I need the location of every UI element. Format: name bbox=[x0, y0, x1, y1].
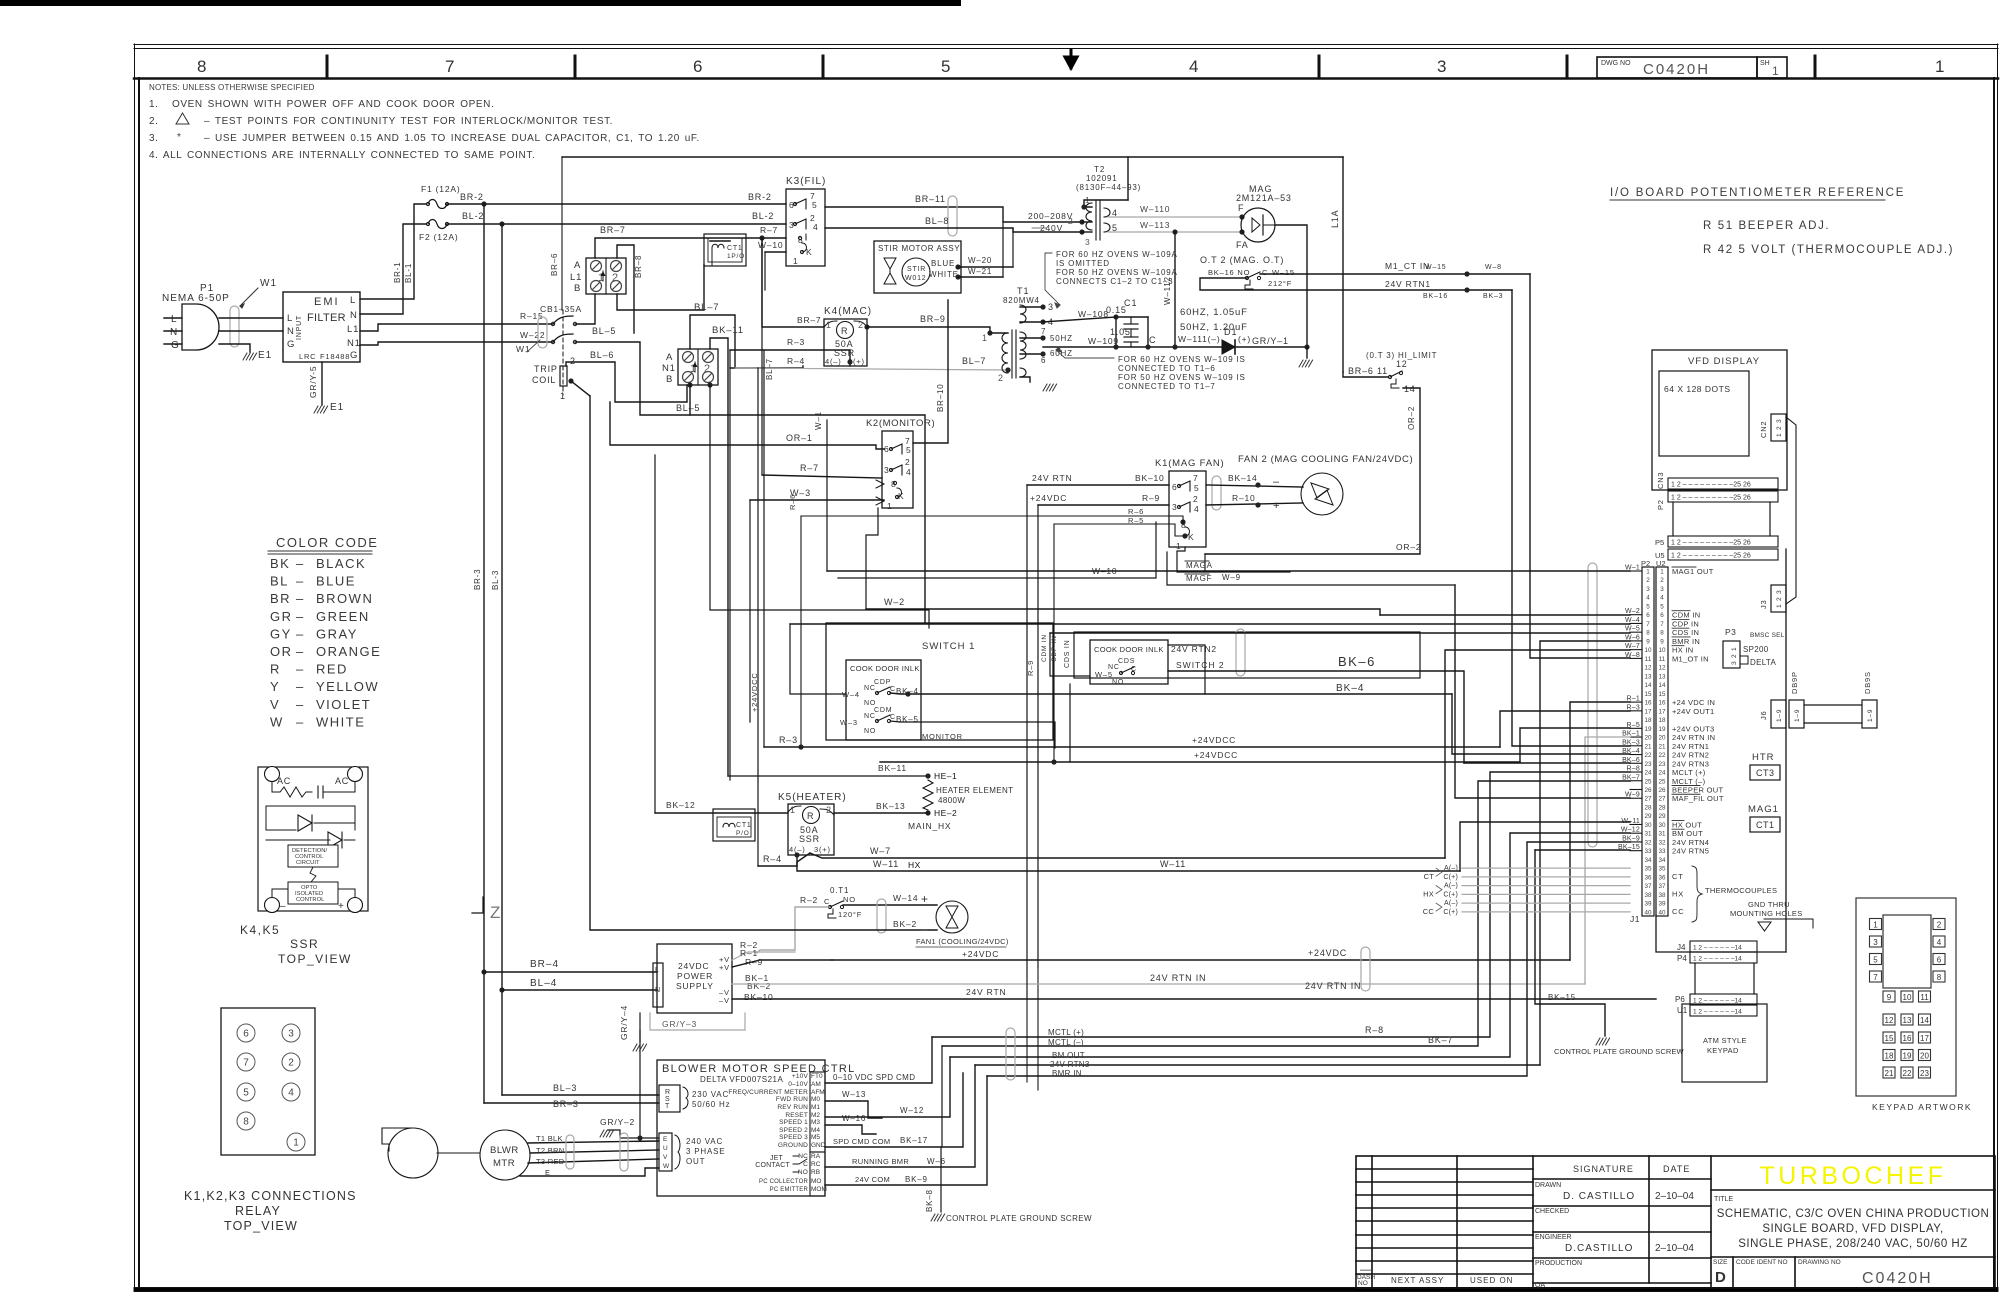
svg-text:P3: P3 bbox=[1725, 627, 1736, 637]
svg-text:+24VDC: +24VDC bbox=[962, 949, 999, 959]
svg-text:CDP: CDP bbox=[874, 679, 891, 686]
wire BR-2 bus bbox=[447, 192, 786, 207]
svg-text:PC EMITTER: PC EMITTER bbox=[770, 1187, 809, 1193]
svg-text:18: 18 bbox=[1658, 717, 1666, 724]
svg-text:T1 BLK: T1 BLK bbox=[536, 1134, 563, 1143]
connector P3 BMSC SEL bbox=[1723, 627, 1785, 668]
svg-text:0–10 VDC SPD CMD: 0–10 VDC SPD CMD bbox=[833, 1073, 915, 1082]
svg-text:R–6: R–6 bbox=[1128, 507, 1144, 516]
svg-text:HX: HX bbox=[1672, 889, 1684, 898]
svg-text:R 51 BEEPER ADJ.: R 51 BEEPER ADJ. bbox=[1703, 220, 1830, 232]
svg-text:0–10V: 0–10V bbox=[788, 1081, 808, 1088]
svg-text:COOK DOOR INLK: COOK DOOR INLK bbox=[850, 664, 920, 673]
svg-text:BL-3: BL-3 bbox=[491, 570, 500, 590]
svg-text:W–11: W–11 bbox=[1160, 859, 1186, 869]
svg-text:CONTROL PLATE GROUND SCREW: CONTROL PLATE GROUND SCREW bbox=[946, 1214, 1092, 1223]
svg-text:16: 16 bbox=[1658, 700, 1666, 707]
wire W-4 to pin 7 bbox=[790, 623, 1630, 625]
svg-text:W1: W1 bbox=[516, 344, 530, 354]
wire M1_CT IN bbox=[1260, 261, 1530, 277]
contactor K3 aux (A L1 B block 1) bbox=[570, 258, 626, 294]
svg-text:BL–6: BL–6 bbox=[590, 350, 614, 360]
wire BL-7 gray to T1 pin2 bbox=[735, 356, 1011, 383]
svg-text:10: 10 bbox=[1658, 647, 1666, 654]
svg-text:HEATER ELEMENT: HEATER ELEMENT bbox=[936, 786, 1013, 795]
svg-text:1 2 – – – – – – – – –25 26: 1 2 – – – – – – – – –25 26 bbox=[1671, 495, 1751, 502]
MAGA / MAGF wires bbox=[1167, 547, 1455, 585]
svg-text:BR–3: BR–3 bbox=[553, 1099, 579, 1109]
svg-text:YELLOW: YELLOW bbox=[316, 679, 379, 694]
svg-text:8: 8 bbox=[1660, 630, 1664, 637]
svg-text:W–3: W–3 bbox=[840, 718, 858, 727]
wire W-2 to pin 6 bbox=[1380, 614, 1630, 616]
svg-text:T3 RED: T3 RED bbox=[536, 1157, 565, 1166]
svg-text:13: 13 bbox=[1644, 673, 1652, 680]
svg-text:5: 5 bbox=[906, 445, 912, 455]
wire +24VDC lower label bbox=[1308, 948, 1347, 958]
svg-text:R–9: R–9 bbox=[1142, 493, 1160, 503]
svg-text:MCLT (–): MCLT (–) bbox=[1672, 777, 1706, 786]
svg-text:W–8: W–8 bbox=[1485, 264, 1502, 271]
K1 input wires 24V RTN / +24VDC bbox=[788, 473, 1185, 762]
svg-text:17: 17 bbox=[1658, 708, 1666, 715]
svg-text:Z: Z bbox=[490, 903, 500, 922]
svg-text:STIR MOTOR ASSY: STIR MOTOR ASSY bbox=[878, 244, 960, 253]
wire BL-2 bus bbox=[447, 211, 786, 227]
svg-text:1–9: 1–9 bbox=[1867, 709, 1874, 722]
svg-text:N: N bbox=[350, 310, 358, 321]
svg-text:CONNECTED TO T1–6: CONNECTED TO T1–6 bbox=[1118, 364, 1216, 373]
svg-text:33: 33 bbox=[1658, 848, 1666, 855]
svg-text:F18488: F18488 bbox=[320, 352, 350, 361]
svg-text:BL–7: BL–7 bbox=[765, 358, 774, 380]
ground E1 (plug) bbox=[243, 350, 272, 361]
svg-text:REV RUN: REV RUN bbox=[777, 1104, 808, 1111]
ferrite on CB1 input bbox=[516, 317, 547, 354]
relay K1(MAG FAN) bbox=[1155, 458, 1225, 551]
blower scroll icon bbox=[382, 1128, 438, 1178]
svg-text:9: 9 bbox=[1646, 638, 1650, 645]
svg-text:1: 1 bbox=[1935, 57, 1944, 76]
svg-text:NO: NO bbox=[864, 700, 876, 707]
svg-text:24V RTN3: 24V RTN3 bbox=[1672, 759, 1709, 768]
svg-text:3 PHASE: 3 PHASE bbox=[686, 1147, 725, 1156]
svg-text:+24VDCC: +24VDCC bbox=[1194, 750, 1238, 760]
svg-text:16: 16 bbox=[1903, 1034, 1912, 1043]
svg-text:S: S bbox=[665, 1096, 670, 1103]
svg-text:BLUE: BLUE bbox=[931, 259, 955, 268]
svg-text:OR–2: OR–2 bbox=[1396, 542, 1421, 552]
svg-text:TOP_VIEW: TOP_VIEW bbox=[278, 952, 352, 966]
svg-text:BL-2: BL-2 bbox=[462, 211, 484, 221]
connector U5 row bbox=[1655, 549, 1778, 560]
svg-text:14: 14 bbox=[1658, 682, 1666, 689]
svg-text:11: 11 bbox=[1659, 656, 1666, 663]
thermocouple brace + labels bbox=[1672, 866, 1777, 922]
svg-text:SSR: SSR bbox=[799, 834, 820, 844]
svg-text:200–208V: 200–208V bbox=[1028, 211, 1073, 221]
svg-text:–: – bbox=[296, 609, 305, 624]
svg-text:–: – bbox=[296, 679, 305, 694]
switch2 wires BK-6 bbox=[1050, 633, 1464, 763]
svg-text:BMR IN: BMR IN bbox=[1052, 1069, 1082, 1078]
svg-text:O.T 2 (MAG. O.T): O.T 2 (MAG. O.T) bbox=[1200, 255, 1284, 265]
svg-text:A(–): A(–) bbox=[1444, 865, 1458, 872]
svg-text:W–12: W–12 bbox=[900, 1106, 924, 1115]
wire L to fuse F1 bbox=[360, 204, 426, 299]
svg-text:R–3: R–3 bbox=[779, 735, 798, 745]
svg-text:1: 1 bbox=[560, 391, 566, 401]
svg-text:2: 2 bbox=[1068, 216, 1073, 226]
svg-text:OR–2: OR–2 bbox=[1407, 406, 1416, 430]
wire BR-11 bbox=[825, 194, 1085, 236]
svg-text:BK–12: BK–12 bbox=[666, 800, 696, 810]
svg-text:SINGLE PHASE, 208/240 VAC, 50/: SINGLE PHASE, 208/240 VAC, 50/60 HZ bbox=[1738, 1238, 1968, 1250]
svg-text:GRAY: GRAY bbox=[316, 626, 358, 641]
wire W-2 bbox=[866, 508, 1380, 615]
svg-text:7: 7 bbox=[1041, 327, 1046, 336]
heater element 4800W bbox=[908, 780, 1013, 831]
svg-text:31: 31 bbox=[1658, 831, 1666, 838]
svg-text:N: N bbox=[170, 327, 178, 338]
svg-text:FOR 50 HZ OVENS W–109A: FOR 50 HZ OVENS W–109A bbox=[1056, 268, 1178, 277]
zone ticks bbox=[327, 56, 1815, 78]
svg-text:–: – bbox=[1273, 476, 1280, 488]
svg-text:DWG NO: DWG NO bbox=[1601, 60, 1631, 67]
connector J4 bbox=[1677, 941, 1757, 952]
svg-text:W–15: W–15 bbox=[1272, 268, 1295, 277]
connector J6 + DB9P bbox=[1759, 671, 1804, 728]
svg-text:+: + bbox=[921, 892, 929, 906]
svg-text:24V RTN IN: 24V RTN IN bbox=[1672, 733, 1715, 742]
svg-text:W–2: W–2 bbox=[884, 597, 905, 607]
svg-text:BL–5: BL–5 bbox=[676, 403, 700, 413]
VFD output wires right bbox=[825, 1037, 987, 1185]
svg-text:2: 2 bbox=[570, 356, 576, 366]
wire BL-8 bbox=[825, 216, 1085, 235]
svg-text:4: 4 bbox=[813, 222, 819, 232]
connector CN3 row bbox=[1656, 472, 1778, 489]
svg-text:HTR: HTR bbox=[1752, 752, 1775, 763]
svg-text:1: 1 bbox=[826, 320, 831, 330]
svg-text:KEYPAD: KEYPAD bbox=[1707, 1046, 1739, 1055]
thermocouple wires (gray) bbox=[1423, 865, 1630, 916]
svg-text:CDS IN: CDS IN bbox=[1064, 639, 1071, 668]
svg-text:12: 12 bbox=[1885, 1016, 1894, 1025]
svg-text:–: – bbox=[296, 591, 305, 606]
svg-text:DRAWN: DRAWN bbox=[1535, 1182, 1561, 1189]
SSR K4(MAC) bbox=[824, 306, 872, 366]
svg-text:BR-2: BR-2 bbox=[460, 192, 484, 202]
svg-text:MAGA: MAGA bbox=[1186, 561, 1213, 570]
svg-text:1: 1 bbox=[793, 256, 799, 266]
svg-text:32: 32 bbox=[1644, 839, 1652, 846]
svg-text:ORANGE: ORANGE bbox=[316, 644, 381, 659]
svg-text:4800W: 4800W bbox=[938, 796, 965, 805]
svg-text:35: 35 bbox=[1644, 866, 1652, 873]
svg-text:RESET: RESET bbox=[785, 1112, 808, 1119]
svg-text:2: 2 bbox=[1193, 494, 1199, 504]
svg-text:SPEED 2: SPEED 2 bbox=[779, 1127, 808, 1134]
relay K3(FIL) bbox=[786, 176, 826, 266]
center fold arrow bbox=[1065, 50, 1077, 68]
svg-text:12: 12 bbox=[1658, 665, 1666, 672]
svg-text:E1: E1 bbox=[330, 402, 344, 413]
svg-text:I/O BOARD POTENTIOMETER REF: I/O BOARD POTENTIOMETER REFERENCE bbox=[1610, 187, 1905, 199]
svg-text:27: 27 bbox=[1644, 796, 1652, 803]
svg-text:CC: CC bbox=[1672, 907, 1684, 916]
notes text bbox=[149, 83, 700, 161]
K4,K5 SSR top view bbox=[258, 767, 368, 913]
svg-text:CB1–35A: CB1–35A bbox=[540, 304, 582, 314]
svg-text:2: 2 bbox=[1660, 577, 1664, 584]
wire R-8 to pin 24 bbox=[932, 772, 1630, 1037]
svg-text:102091: 102091 bbox=[1086, 174, 1118, 183]
svg-text:CT1: CT1 bbox=[1756, 820, 1775, 830]
svg-text:+24VDC: +24VDC bbox=[1308, 948, 1347, 958]
svg-text:BK–16: BK–16 bbox=[1423, 293, 1448, 300]
DB9S connector + cable bbox=[1804, 671, 1877, 728]
svg-text:+: + bbox=[338, 901, 345, 912]
svg-text:R: R bbox=[270, 662, 281, 677]
svg-text:SIZE: SIZE bbox=[1713, 1259, 1728, 1266]
svg-text:8: 8 bbox=[197, 57, 206, 76]
svg-text:–: – bbox=[921, 922, 928, 936]
svg-text:R–7: R–7 bbox=[800, 463, 819, 473]
svg-text:G: G bbox=[287, 339, 295, 350]
svg-text:1.: 1. bbox=[149, 99, 159, 110]
svg-text:FILTER: FILTER bbox=[307, 312, 346, 324]
svg-text:4: 4 bbox=[1660, 595, 1664, 602]
svg-text:2: 2 bbox=[1937, 921, 1942, 930]
wires plug to EMI filter bbox=[219, 318, 283, 352]
CT1 (MAG1) bbox=[1748, 804, 1780, 832]
svg-text:4: 4 bbox=[1646, 595, 1650, 602]
svg-text:BR-2: BR-2 bbox=[748, 192, 772, 202]
PS ground GR/Y-3 gray loop bbox=[650, 1013, 745, 1030]
svg-text:820MW4: 820MW4 bbox=[1003, 296, 1040, 305]
svg-text:M5: M5 bbox=[811, 1134, 820, 1141]
connector P2 row bbox=[1656, 491, 1778, 510]
svg-text:8: 8 bbox=[1937, 973, 1942, 982]
svg-text:7: 7 bbox=[445, 57, 454, 76]
svg-text:NOTES: UNLESS OTHERWISE SPECI: NOTES: UNLESS OTHERWISE SPECIFIED bbox=[149, 83, 315, 92]
wire W-113 (gray) bbox=[1108, 220, 1245, 235]
svg-text:BK–17: BK–17 bbox=[900, 1136, 928, 1145]
magnetron MAG 2M121A-53 bbox=[1236, 184, 1292, 250]
svg-text:GR/Y–1: GR/Y–1 bbox=[1252, 336, 1289, 346]
svg-text:SPEED 3: SPEED 3 bbox=[779, 1134, 808, 1141]
svg-text:NC: NC bbox=[864, 685, 876, 692]
svg-text:BR–4: BR–4 bbox=[530, 959, 559, 970]
svg-text:K3(FIL): K3(FIL) bbox=[786, 176, 826, 187]
svg-text:0.T1: 0.T1 bbox=[830, 886, 849, 895]
svg-text:D: D bbox=[1715, 1269, 1726, 1286]
T1 ground bbox=[1043, 384, 1057, 391]
svg-text:SCHEMATIC, C3/C OVEN CHINA PRO: SCHEMATIC, C3/C OVEN CHINA PRODUCTION bbox=[1717, 1208, 1990, 1220]
svg-text:PC COLLECTOR: PC COLLECTOR bbox=[759, 1179, 808, 1185]
wire BK-12 bbox=[640, 455, 788, 1138]
svg-text:1 2 – – – – – – – – –25 26: 1 2 – – – – – – – – –25 26 bbox=[1671, 553, 1751, 560]
svg-text:29: 29 bbox=[1644, 813, 1652, 820]
svg-text:7: 7 bbox=[1660, 621, 1664, 628]
svg-text:DELTA VFD007S21A: DELTA VFD007S21A bbox=[700, 1075, 783, 1084]
svg-text:23: 23 bbox=[1920, 1069, 1929, 1078]
svg-text:33: 33 bbox=[1644, 848, 1652, 855]
24VDC power supply bbox=[653, 944, 732, 1013]
svg-text:BR–8: BR–8 bbox=[634, 255, 643, 278]
svg-text:CONTACT: CONTACT bbox=[755, 1162, 790, 1169]
svg-text:1 2 – – – – – –14: 1 2 – – – – – –14 bbox=[1693, 956, 1742, 963]
svg-text:7: 7 bbox=[1873, 973, 1878, 982]
ferrite fan1 bbox=[877, 899, 886, 933]
svg-text:20: 20 bbox=[1920, 1052, 1929, 1061]
svg-text:50HZ, 1.20uF: 50HZ, 1.20uF bbox=[1180, 322, 1248, 333]
BLWR MTR motor bbox=[437, 1130, 530, 1180]
svg-text:R–6: R–6 bbox=[788, 494, 797, 510]
svg-text:12: 12 bbox=[1644, 665, 1652, 672]
svg-text:W–110: W–110 bbox=[1140, 204, 1170, 214]
svg-text:GREEN: GREEN bbox=[316, 609, 370, 624]
svg-text:WHITE: WHITE bbox=[316, 714, 365, 729]
wire W-11 to pin 30 bbox=[1160, 822, 1630, 871]
svg-text:DELTA: DELTA bbox=[1750, 658, 1776, 667]
svg-text:NO: NO bbox=[843, 895, 856, 904]
svg-text:39: 39 bbox=[1658, 901, 1666, 908]
svg-text:5: 5 bbox=[812, 200, 818, 210]
svg-text:SSR: SSR bbox=[290, 937, 319, 951]
note: 60hz ovens W-109A bbox=[1045, 250, 1178, 308]
K4 coil wires R-3 R-4 bbox=[730, 337, 853, 780]
wire +24VDCC (2) bbox=[798, 684, 1520, 765]
svg-text:26: 26 bbox=[1644, 787, 1652, 794]
svg-text:CC: CC bbox=[1423, 907, 1435, 916]
relay top view labels bbox=[184, 1189, 357, 1233]
svg-text:BL–7: BL–7 bbox=[694, 302, 719, 313]
svg-text:R–9: R–9 bbox=[745, 957, 763, 967]
svg-text:MCTL (–): MCTL (–) bbox=[1048, 1038, 1084, 1047]
wire W-10 bbox=[838, 522, 1156, 578]
I/O board outline bbox=[1656, 549, 1786, 952]
svg-text:24V RTN1: 24V RTN1 bbox=[1672, 742, 1709, 751]
svg-text:3(+): 3(+) bbox=[814, 845, 831, 854]
wire +24VDC to pin 16 bbox=[1570, 702, 1630, 960]
svg-text:FAN1 (COOLING/24VDC): FAN1 (COOLING/24VDC) bbox=[916, 937, 1009, 946]
svg-text:FOR 60 HZ OVENS W–109 IS: FOR 60 HZ OVENS W–109 IS bbox=[1118, 355, 1246, 364]
svg-text:K1(MAG FAN): K1(MAG FAN) bbox=[1155, 458, 1225, 469]
svg-text:BK: BK bbox=[270, 556, 290, 571]
K4 wire BR-9 out to T1 bbox=[864, 314, 1008, 343]
svg-text:27: 27 bbox=[1658, 796, 1666, 803]
svg-text:SINGLE BOARD, VFD DISPLAY,: SINGLE BOARD, VFD DISPLAY, bbox=[1762, 1223, 1943, 1235]
svg-text:24: 24 bbox=[1658, 770, 1666, 777]
svg-text:BLACK: BLACK bbox=[316, 556, 366, 571]
svg-text:+24V OUT3: +24V OUT3 bbox=[1672, 724, 1715, 733]
svg-text:NO: NO bbox=[798, 1169, 808, 1176]
svg-text:–V: –V bbox=[719, 996, 730, 1005]
connector U1 bbox=[1677, 1005, 1757, 1016]
svg-text:BK–3: BK–3 bbox=[1483, 293, 1503, 300]
svg-text:C: C bbox=[803, 1161, 808, 1168]
svg-text:2: 2 bbox=[612, 272, 618, 284]
wire BR-4 bbox=[481, 959, 657, 975]
svg-text:OR: OR bbox=[270, 644, 293, 659]
svg-text:15: 15 bbox=[1644, 691, 1652, 698]
svg-text:24VDC: 24VDC bbox=[678, 961, 709, 971]
svg-text:6: 6 bbox=[1660, 612, 1664, 619]
svg-text:CIRCUIT: CIRCUIT bbox=[296, 860, 320, 866]
svg-text:GR/Y–2: GR/Y–2 bbox=[600, 1117, 635, 1127]
svg-text:SUPPLY: SUPPLY bbox=[676, 981, 714, 991]
switch assembly SWITCH 1 (cook door inlk + monitor) bbox=[826, 623, 1053, 741]
wire W-109 / main HV line bbox=[1043, 336, 1222, 350]
svg-text:17: 17 bbox=[1920, 1034, 1929, 1043]
contactor1 top wires BR-7 / BR-8 bbox=[595, 225, 762, 333]
svg-text:29: 29 bbox=[1658, 813, 1666, 820]
svg-text:19: 19 bbox=[1903, 1052, 1912, 1061]
svg-text:MAIN_HX: MAIN_HX bbox=[908, 821, 951, 831]
svg-text:0.15: 0.15 bbox=[1106, 305, 1127, 315]
svg-text:32: 32 bbox=[1658, 839, 1666, 846]
svg-text:GR/Y–4: GR/Y–4 bbox=[619, 1005, 629, 1040]
svg-text:SWITCH 1: SWITCH 1 bbox=[922, 641, 975, 652]
svg-text:21: 21 bbox=[1658, 743, 1666, 750]
wire W-6 to pin 9 bbox=[975, 641, 1630, 1065]
svg-text:MOM: MOM bbox=[811, 1186, 827, 1193]
svg-text:W–109: W–109 bbox=[1088, 336, 1119, 346]
svg-text:R–3: R–3 bbox=[787, 337, 805, 347]
svg-text:MCLT (+): MCLT (+) bbox=[1672, 768, 1706, 777]
svg-text:BM OUT: BM OUT bbox=[1052, 1051, 1085, 1060]
wire R-2 (gray) bbox=[757, 907, 828, 953]
svg-text:B: B bbox=[574, 283, 581, 294]
svg-text:F1 (12A): F1 (12A) bbox=[421, 184, 460, 194]
svg-text:20: 20 bbox=[1658, 735, 1666, 742]
svg-text:R–4: R–4 bbox=[787, 356, 805, 366]
svg-text:OVEN SHOWN WITH POWER OFF AND: OVEN SHOWN WITH POWER OFF AND COOK DOOR … bbox=[172, 99, 494, 110]
svg-text:– USE JUMPER BETWEEN 0.15 AND: – USE JUMPER BETWEEN 0.15 AND 1.05 TO IN… bbox=[204, 133, 700, 144]
svg-text:64 X 128 DOTS: 64 X 128 DOTS bbox=[1664, 384, 1731, 394]
svg-text:BR–7: BR–7 bbox=[797, 315, 821, 325]
svg-text:L1: L1 bbox=[347, 324, 359, 335]
svg-text:4: 4 bbox=[906, 467, 912, 477]
svg-text:BLOWER MOTOR SPEED CTRL: BLOWER MOTOR SPEED CTRL bbox=[662, 1063, 856, 1075]
svg-text:GROUND: GROUND bbox=[778, 1142, 808, 1149]
svg-text:(+): (+) bbox=[1238, 334, 1251, 344]
ATM style keypad bbox=[1682, 1004, 1767, 1082]
MAG cathode return wire bbox=[1275, 225, 1307, 347]
svg-text:4: 4 bbox=[288, 1088, 294, 1099]
svg-text:BK–10: BK–10 bbox=[744, 992, 774, 1002]
wire W-9 to pin 27 bbox=[1455, 585, 1630, 798]
svg-text:BR–6 11: BR–6 11 bbox=[1348, 366, 1388, 376]
svg-text:19: 19 bbox=[1644, 726, 1652, 733]
svg-text:1 2 – – – – – –14: 1 2 – – – – – –14 bbox=[1693, 945, 1742, 952]
svg-text:BK–4: BK–4 bbox=[1336, 683, 1364, 694]
svg-text:W–6: W–6 bbox=[927, 1157, 946, 1166]
Z net flag bbox=[472, 897, 500, 922]
svg-text:4. ALL CONNECTIONS ARE INTERNA: 4. ALL CONNECTIONS ARE INTERNALLY CONNEC… bbox=[149, 150, 535, 161]
svg-text:R–7: R–7 bbox=[760, 225, 778, 235]
svg-text:30: 30 bbox=[1658, 822, 1666, 829]
svg-text:240 VAC: 240 VAC bbox=[686, 1137, 723, 1146]
svg-text:1–9: 1–9 bbox=[1776, 709, 1783, 722]
svg-text:PRODUCTION: PRODUCTION bbox=[1535, 1260, 1582, 1267]
svg-text:RELAY: RELAY bbox=[235, 1204, 281, 1218]
svg-text:CDM IN: CDM IN bbox=[1041, 634, 1048, 662]
transformer T1 820MW4 bbox=[1002, 286, 1073, 382]
svg-text:N1: N1 bbox=[347, 338, 361, 349]
